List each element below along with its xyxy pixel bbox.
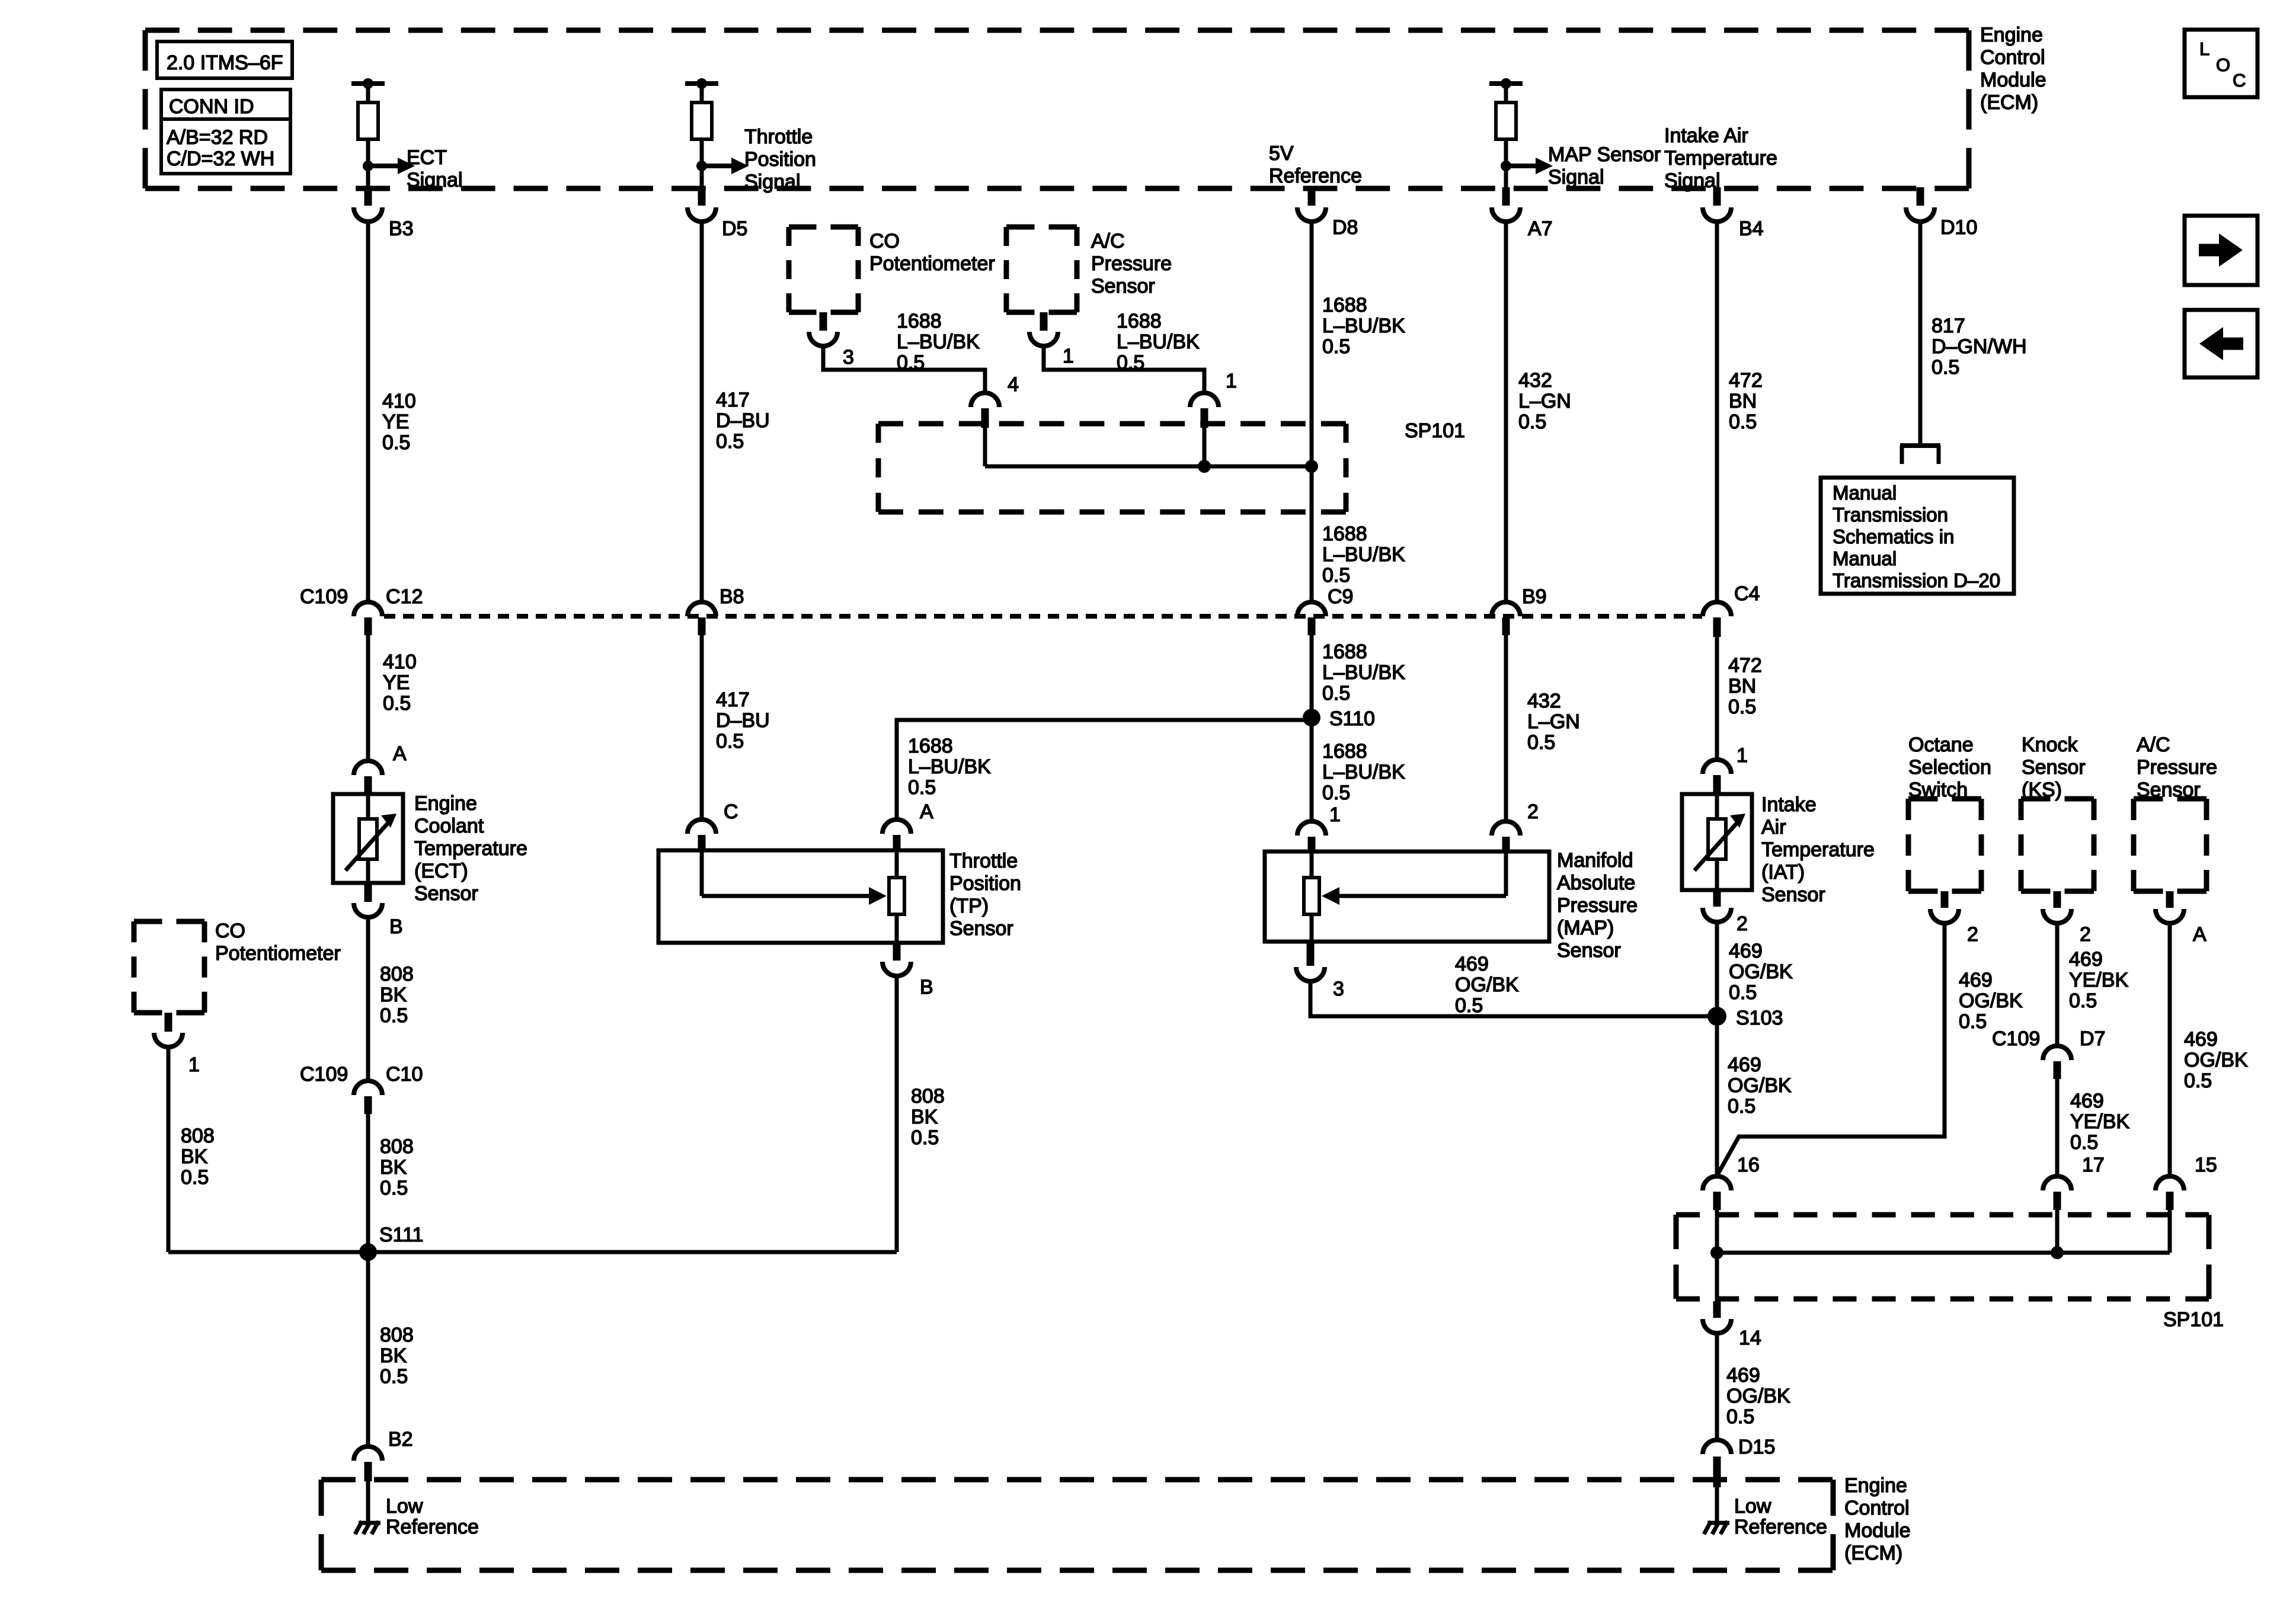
label 410 YE 0.5 upper <box>382 390 416 454</box>
label 1688 L-BU/BK 0.5 (D8) <box>1322 294 1405 358</box>
connector 2 (IAT sensor) <box>1703 890 1731 922</box>
svg-text:Manifold: Manifold <box>1557 849 1633 872</box>
svg-text:Signal: Signal <box>407 169 463 191</box>
ECT Signal arrow <box>363 158 415 174</box>
svg-text:0.5: 0.5 <box>1726 1406 1754 1428</box>
svg-text:0.5: 0.5 <box>1455 994 1483 1017</box>
svg-text:2: 2 <box>2080 923 2091 946</box>
svg-text:0.5: 0.5 <box>716 730 744 753</box>
connector C (TP sensor) <box>687 820 716 852</box>
label C109 (C10 row) <box>300 1063 348 1086</box>
svg-text:Reference: Reference <box>1734 1516 1827 1538</box>
svg-text:A/C: A/C <box>1091 230 1125 252</box>
svg-text:2: 2 <box>1527 801 1539 823</box>
svg-text:1: 1 <box>1737 744 1748 767</box>
svg-text:B4: B4 <box>1739 217 1764 240</box>
label B (ECT) <box>389 916 403 938</box>
connector B (TP sensor) <box>882 943 911 976</box>
label 808 BK 0.5 (above S111) <box>380 1135 414 1199</box>
svg-text:417: 417 <box>716 389 750 411</box>
svg-text:Sensor: Sensor <box>1761 884 1825 906</box>
label 817 D-GN/WH 0.5 <box>1932 315 2027 379</box>
svg-text:Position: Position <box>744 148 816 171</box>
connector A (ECT sensor) <box>354 761 382 795</box>
wire 4 to bus <box>983 428 987 466</box>
wire IAT 2 to 16 <box>1715 922 1719 1176</box>
svg-text:(IAT): (IAT) <box>1761 861 1805 884</box>
connector 1 (CO pot lower) <box>154 1013 183 1047</box>
TP wiper wire and arrow <box>702 850 887 905</box>
svg-text:3: 3 <box>1333 978 1344 1000</box>
label 1688 L-BU/BK 0.5 (above C9) <box>1322 523 1405 587</box>
label C4 <box>1734 582 1760 605</box>
svg-text:Position: Position <box>949 872 1021 895</box>
svg-text:D–BU: D–BU <box>716 409 770 432</box>
svg-text:0.5: 0.5 <box>1959 1010 1987 1033</box>
label 3 (MAP) <box>1333 978 1344 1000</box>
label SP101 upper <box>1405 420 1465 442</box>
svg-text:0.5: 0.5 <box>1729 411 1757 433</box>
label Throttle Position Signal <box>744 126 816 193</box>
svg-text:OG/BK: OG/BK <box>1455 974 1519 996</box>
label 14 <box>1739 1327 1761 1349</box>
label D10 <box>1940 216 1977 239</box>
wire A/C to splice connector 1 <box>1044 346 1204 393</box>
svg-text:BN: BN <box>1728 675 1756 697</box>
connector 15 (SP101) <box>2156 1176 2184 1210</box>
svg-text:A/C: A/C <box>2137 734 2170 756</box>
svg-text:S110: S110 <box>1329 708 1375 730</box>
label 15 <box>2195 1154 2217 1176</box>
svg-text:A7: A7 <box>1528 217 1553 240</box>
svg-text:1688: 1688 <box>1322 294 1367 316</box>
label C109 (D7 row) <box>1992 1028 2040 1050</box>
svg-text:C: C <box>724 801 738 823</box>
connector B2 (ECM low ref) <box>354 1446 382 1481</box>
svg-text:0.5: 0.5 <box>1728 1095 1755 1118</box>
svg-text:0.5: 0.5 <box>2069 990 2097 1012</box>
SP101 upper splice dashed box <box>878 424 1346 512</box>
label 469 OG/BK 0.5 (Octane) <box>1959 969 2023 1033</box>
ECT variable resistor symbol <box>346 814 396 870</box>
label 808 BK 0.5 (TP B) <box>911 1085 945 1149</box>
svg-text:B3: B3 <box>389 217 414 240</box>
svg-text:469: 469 <box>1959 969 1993 991</box>
svg-text:L–GN: L–GN <box>1527 710 1580 733</box>
wire 15 to bus <box>2168 1210 2172 1253</box>
label 469 OG/BK 0.5 (A/C right) <box>2184 1028 2248 1092</box>
label 808 BK 0.5 (below S111) <box>380 1324 414 1388</box>
label CO Potentiometer lower <box>215 920 341 965</box>
svg-text:469: 469 <box>2184 1028 2218 1051</box>
connector A (A/C right) <box>2156 891 2184 923</box>
svg-text:808: 808 <box>181 1125 215 1147</box>
svg-text:(KS): (KS) <box>2022 779 2062 801</box>
TP sensor box <box>658 850 943 943</box>
label 5V Reference <box>1269 142 1362 187</box>
svg-text:0.5: 0.5 <box>1729 981 1757 1004</box>
CONN ID table box <box>161 89 290 174</box>
label 1688 L-BU/BK 0.5 (TP A) <box>908 735 991 799</box>
wire 817 D-GN/WH <box>1918 222 1923 446</box>
connector 2 (Octane) <box>1930 891 1959 923</box>
svg-text:2.0 ITMS–6F: 2.0 ITMS–6F <box>167 52 283 74</box>
svg-text:Knock: Knock <box>2022 734 2078 756</box>
wire bus to 14 <box>1715 1253 1719 1301</box>
svg-text:1: 1 <box>1063 345 1074 367</box>
connector B4 (ECM) <box>1703 187 1731 222</box>
label: Engine Control Module (ECM) bottom <box>1844 1474 1911 1564</box>
svg-text:YE: YE <box>383 671 410 694</box>
wire 17 to bus <box>2055 1210 2060 1253</box>
label C9 <box>1328 585 1353 608</box>
svg-text:Temperature: Temperature <box>1761 838 1875 861</box>
wire 432 L-GN lower <box>1504 635 1508 821</box>
svg-text:A: A <box>920 801 933 823</box>
svg-text:D–BU: D–BU <box>716 709 770 732</box>
connector C4 in-line <box>1703 602 1731 637</box>
connector B3 (ECM) <box>354 187 382 222</box>
label A (ECT) <box>393 742 407 765</box>
svg-text:L–BU/BK: L–BU/BK <box>1322 543 1405 566</box>
svg-text:0.5: 0.5 <box>380 1177 408 1199</box>
svg-text:0.5: 0.5 <box>1117 351 1144 374</box>
svg-text:417: 417 <box>716 689 750 711</box>
label 808 BK 0.5 (CO pot lower) <box>181 1125 215 1189</box>
svg-text:(ECT): (ECT) <box>414 860 468 882</box>
svg-text:YE/BK: YE/BK <box>2069 969 2128 991</box>
svg-text:L–BU/BK: L–BU/BK <box>897 331 980 353</box>
svg-text:1688: 1688 <box>1117 310 1162 332</box>
wire D7 to 17 <box>2055 1079 2060 1176</box>
label CO Potentiometer upper <box>869 230 995 275</box>
wire 432 L-GN upper <box>1504 222 1508 602</box>
svg-text:0.5: 0.5 <box>1728 696 1756 718</box>
wire 417 D-BU lower <box>700 635 704 820</box>
wire Octane to 16 <box>1717 923 1945 1176</box>
svg-text:0.5: 0.5 <box>1518 411 1546 433</box>
svg-text:Intake Air: Intake Air <box>1664 124 1748 147</box>
svg-text:YE: YE <box>382 411 409 433</box>
svg-text:B9: B9 <box>1522 585 1547 608</box>
label S103 <box>1736 1007 1783 1029</box>
wire splice1 to bus <box>1203 428 1207 466</box>
TP Signal arrow <box>696 158 749 174</box>
svg-text:SP101: SP101 <box>2163 1308 2224 1331</box>
svg-text:Module: Module <box>1844 1519 1911 1542</box>
svg-text:817: 817 <box>1932 315 1965 337</box>
wire 14 to D15 <box>1715 1333 1719 1440</box>
connector 14 (SP101) <box>1703 1301 1731 1333</box>
svg-text:0.5: 0.5 <box>1322 564 1350 587</box>
svg-text:808: 808 <box>380 1324 414 1346</box>
connector B (ECT sensor) <box>354 883 382 917</box>
svg-text:D–GN/WH: D–GN/WH <box>1932 335 2027 358</box>
svg-text:YE/BK: YE/BK <box>2070 1110 2129 1133</box>
wire CO pot to splice connector 4 <box>823 346 985 393</box>
wire 417 D-BU upper <box>700 222 704 602</box>
svg-text:0.5: 0.5 <box>380 1004 408 1027</box>
Knock Sensor dashed box <box>2021 799 2094 891</box>
IAT sensor box <box>1682 794 1752 890</box>
svg-text:808: 808 <box>380 963 414 985</box>
connector C109/C10 in-line <box>354 1081 382 1114</box>
label A/C Pressure Sensor upper <box>1091 230 1172 297</box>
connector B9 in-line <box>1492 602 1520 635</box>
svg-text:Signal: Signal <box>744 171 801 193</box>
svg-text:D15: D15 <box>1738 1436 1775 1458</box>
connector D10 (ECM) <box>1906 187 1934 222</box>
label 1 (IAT) <box>1737 744 1748 767</box>
svg-text:L–BU/BK: L–BU/BK <box>1322 761 1405 783</box>
svg-text:Engine: Engine <box>414 792 477 815</box>
svg-text:Temperature: Temperature <box>414 837 527 860</box>
svg-text:1688: 1688 <box>1322 740 1367 763</box>
svg-text:410: 410 <box>382 390 416 412</box>
svg-text:C4: C4 <box>1734 582 1760 605</box>
label SP101 lower <box>2163 1308 2224 1331</box>
svg-text:Intake: Intake <box>1761 793 1817 816</box>
wire C9 to S110 <box>1310 635 1314 821</box>
svg-text:(ECM): (ECM) <box>1844 1542 1902 1564</box>
svg-text:Engine: Engine <box>1844 1474 1907 1497</box>
svg-text:A/B=32 RD: A/B=32 RD <box>167 126 268 149</box>
label 432 L-GN 0.5 lower <box>1527 690 1580 754</box>
label B2 <box>388 1428 413 1451</box>
svg-text:0.5: 0.5 <box>908 776 936 799</box>
label A (A/C right) <box>2193 923 2207 946</box>
svg-text:472: 472 <box>1729 369 1763 392</box>
svg-text:469: 469 <box>1455 953 1489 975</box>
label 1688 L-BU/BK 0.5 (below C9) <box>1322 641 1405 705</box>
svg-text:(TP): (TP) <box>949 895 989 917</box>
svg-text:Control: Control <box>1844 1497 1910 1519</box>
label Intake Air Temperature (IAT) Sensor <box>1761 793 1875 906</box>
splice S103 <box>1707 1007 1726 1026</box>
connector 1 (A/C up) <box>1029 312 1058 346</box>
label D15 <box>1738 1436 1775 1458</box>
label 469 YE/BK 0.5 (Knock) <box>2069 948 2128 1012</box>
label 417 D-BU 0.5 lower <box>716 689 770 753</box>
ground Low Reference left <box>355 1521 380 1534</box>
wire 1688 from D8 <box>1310 222 1314 466</box>
MAP potentiometer element <box>1304 853 1319 942</box>
connector 1 (IAT sensor) <box>1703 760 1731 795</box>
connector 2 (Knock) <box>2043 891 2071 923</box>
svg-text:CO: CO <box>869 230 900 252</box>
wire 808 BK from ECT B <box>366 917 370 1081</box>
svg-text:Engine: Engine <box>1980 24 2043 46</box>
label Intake Air Temperature Signal <box>1664 124 1777 192</box>
LOC legend box <box>2185 30 2257 97</box>
svg-text:Absolute: Absolute <box>1557 872 1635 894</box>
label 2 (Octane) <box>1967 923 1978 946</box>
svg-text:0.5: 0.5 <box>897 351 925 374</box>
svg-text:D8: D8 <box>1332 216 1358 239</box>
label A (TP) <box>920 801 933 823</box>
svg-text:C: C <box>2233 70 2246 91</box>
label 1 (MAP) <box>1329 804 1341 826</box>
connector D8 (ECM) <box>1297 187 1326 222</box>
svg-text:BK: BK <box>380 1156 407 1179</box>
wire D15 to ground <box>1715 1481 1719 1523</box>
svg-text:Potentiometer: Potentiometer <box>869 252 995 275</box>
svg-text:17: 17 <box>2082 1154 2105 1176</box>
svg-text:1: 1 <box>1226 370 1237 392</box>
label D8 <box>1332 216 1358 239</box>
connector 4 (SP101) <box>971 393 999 428</box>
splice S111 <box>359 1243 377 1261</box>
label B8 <box>720 585 744 608</box>
svg-text:Sensor: Sensor <box>2022 756 2086 779</box>
label 469 OG/BK 0.5 (above D15) <box>1726 1364 1790 1428</box>
MAP sensor box <box>1265 852 1549 942</box>
label 1 (CO pot lower) <box>188 1054 200 1076</box>
harness pass-through dotted line C109 <box>384 614 1702 619</box>
label S110 <box>1329 708 1375 730</box>
label 469 OG/BK 0.5 (MAP 3) <box>1455 953 1519 1017</box>
svg-text:B8: B8 <box>720 585 744 608</box>
wire A/C right to 15 <box>2168 923 2172 1176</box>
svg-text:L–BU/BK: L–BU/BK <box>908 756 991 778</box>
svg-text:SP101: SP101 <box>1405 420 1465 442</box>
label D7 <box>2080 1028 2105 1050</box>
svg-text:2: 2 <box>1737 913 1748 935</box>
label 3 (CO pot) <box>843 346 854 369</box>
label 1 (SP101) <box>1226 370 1237 392</box>
svg-text:BN: BN <box>1729 390 1757 412</box>
connector C109/C12 in-line <box>354 602 382 635</box>
svg-text:469: 469 <box>1728 1054 1761 1076</box>
svg-text:Pressure: Pressure <box>2137 756 2217 779</box>
label A/C Pressure Sensor right <box>2137 734 2217 801</box>
wire 472 BN upper <box>1715 222 1719 600</box>
svg-text:4: 4 <box>1008 373 1019 396</box>
svg-text:0.5: 0.5 <box>1322 782 1350 804</box>
svg-text:CO: CO <box>215 920 245 942</box>
label 16 <box>1737 1154 1760 1176</box>
svg-text:Sensor: Sensor <box>1091 275 1155 297</box>
svg-text:Switch: Switch <box>1908 779 1968 801</box>
label 2 (MAP) <box>1527 801 1539 823</box>
svg-text:Transmission: Transmission <box>1833 504 1948 526</box>
svg-text:OG/BK: OG/BK <box>1726 1385 1790 1407</box>
wire CO pot lower to S111 <box>167 1047 171 1252</box>
MAP Signal arrow <box>1501 158 1553 174</box>
label C109 (C12 row) <box>300 585 348 608</box>
wire Knock to D7 <box>2055 923 2060 1046</box>
wire 808 BK to S111 <box>366 1114 370 1447</box>
svg-text:0.5: 0.5 <box>1527 731 1555 754</box>
label 17 <box>2082 1154 2105 1176</box>
svg-text:Low: Low <box>386 1495 423 1518</box>
label 469 YE/BK 0.5 (below D7) <box>2070 1090 2129 1154</box>
Octane Selection Switch dashed box <box>1908 799 1981 891</box>
IAT variable resistor symbol <box>1694 814 1745 870</box>
connector 1 (MAP sensor) <box>1297 821 1326 853</box>
svg-text:B2: B2 <box>388 1428 413 1451</box>
wire MAP 3 to S103 <box>1310 981 1717 1016</box>
resistor in ECM for MAP signal <box>1489 78 1523 190</box>
svg-text:Reference: Reference <box>386 1516 479 1538</box>
A/C Pressure Sensor right dashed box <box>2134 799 2207 891</box>
svg-text:Low: Low <box>1734 1495 1771 1518</box>
svg-text:Sensor: Sensor <box>1557 939 1621 962</box>
svg-text:14: 14 <box>1739 1327 1761 1349</box>
svg-text:Transmission D–20: Transmission D–20 <box>1833 569 2000 591</box>
svg-text:L–BU/BK: L–BU/BK <box>1117 331 1200 353</box>
wire TP B to S111 bus <box>895 976 899 1252</box>
label 1 (A/C up) <box>1063 345 1074 367</box>
splice S110 <box>1303 709 1320 726</box>
label S111 <box>379 1224 423 1246</box>
svg-text:OG/BK: OG/BK <box>1729 961 1793 983</box>
svg-text:L–BU/BK: L–BU/BK <box>1322 315 1405 337</box>
label 2 (IAT) <box>1737 913 1748 935</box>
svg-text:808: 808 <box>911 1085 945 1108</box>
connector C9 in-line <box>1297 602 1326 635</box>
wire 472 BN lower <box>1715 637 1719 761</box>
SP101 lower splice dashed box <box>1676 1215 2209 1299</box>
label B3 <box>389 217 414 240</box>
label C12 <box>386 585 423 608</box>
svg-text:469: 469 <box>1729 940 1763 962</box>
svg-text:808: 808 <box>380 1135 414 1158</box>
svg-text:Potentiometer: Potentiometer <box>215 942 341 965</box>
svg-text:1688: 1688 <box>1322 641 1367 663</box>
svg-text:469: 469 <box>2070 1090 2104 1112</box>
splice bus in SP101 upper <box>985 460 1318 473</box>
right-arrow legend box <box>2185 216 2257 285</box>
connector B8 in-line <box>687 602 716 635</box>
label 417 D-BU 0.5 upper <box>716 389 770 453</box>
label ECT Signal <box>407 146 463 191</box>
svg-text:Selection: Selection <box>1908 756 1991 779</box>
svg-text:Throttle: Throttle <box>949 850 1018 872</box>
svg-text:Reference: Reference <box>1269 165 1362 187</box>
label 2 (Knock) <box>2080 923 2091 946</box>
svg-text:B: B <box>389 916 403 938</box>
svg-text:L–GN: L–GN <box>1518 390 1571 412</box>
label Octane Selection Switch <box>1908 734 1991 801</box>
svg-text:OG/BK: OG/BK <box>2184 1049 2248 1071</box>
svg-text:Sensor: Sensor <box>2137 779 2201 801</box>
wire S110 to TP A <box>897 720 1312 820</box>
label 472 BN 0.5 upper <box>1729 369 1763 433</box>
svg-text:1: 1 <box>188 1054 200 1076</box>
CO Potentiometer upper dashed box <box>789 227 858 312</box>
svg-text:Throttle: Throttle <box>744 126 813 148</box>
label 432 L-GN 0.5 upper <box>1518 369 1571 433</box>
svg-text:Sensor: Sensor <box>949 917 1013 940</box>
svg-text:0.5: 0.5 <box>380 1365 408 1388</box>
connector 16 (SP101) <box>1703 1176 1731 1210</box>
label 1688 L-BU/BK 0.5 (CO pot) <box>897 310 980 374</box>
connector 1 (SP101) <box>1190 393 1219 428</box>
svg-text:C/D=32 WH: C/D=32 WH <box>167 148 274 170</box>
label Throttle Position (TP) Sensor <box>949 850 1021 940</box>
svg-text:15: 15 <box>2195 1154 2217 1176</box>
svg-text:Signal: Signal <box>1664 169 1721 192</box>
svg-text:0.5: 0.5 <box>382 431 410 454</box>
svg-text:Control: Control <box>1980 46 2045 69</box>
svg-text:Schematics in: Schematics in <box>1833 526 1954 548</box>
connector A (TP sensor) <box>882 820 911 852</box>
connector D5 (ECM) <box>687 187 716 222</box>
svg-text:3: 3 <box>843 346 854 369</box>
svg-text:S111: S111 <box>379 1224 423 1246</box>
label B (TP) <box>920 976 933 998</box>
